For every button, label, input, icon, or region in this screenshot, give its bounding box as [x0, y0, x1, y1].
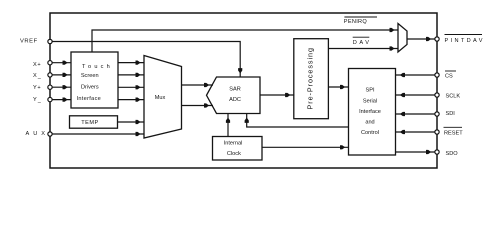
svg-text:Touch: Touch [82, 64, 113, 70]
svg-text:VREF: VREF [20, 39, 38, 45]
svg-text:Y–: Y– [33, 97, 42, 106]
svg-text:Interface: Interface [359, 109, 381, 115]
svg-text:X–: X– [33, 73, 42, 82]
svg-text:Screen: Screen [81, 73, 99, 79]
svg-text:PENIRQ: PENIRQ [344, 19, 368, 25]
svg-text:X+: X+ [33, 62, 41, 68]
svg-text:SPI: SPI [365, 88, 374, 94]
svg-text:TEMP: TEMP [81, 120, 99, 126]
svg-text:Y+: Y+ [33, 85, 41, 91]
svg-text:SDO: SDO [446, 151, 459, 157]
svg-text:SCLK: SCLK [446, 93, 461, 99]
svg-text:RESET: RESET [444, 130, 463, 136]
svg-text:Mux: Mux [155, 95, 166, 101]
svg-text:PINTDAV: PINTDAV [445, 38, 485, 44]
svg-text:SDI: SDI [446, 111, 456, 117]
svg-text:SAR: SAR [229, 87, 241, 93]
svg-text:Clock: Clock [227, 151, 241, 157]
svg-text:Internal: Internal [224, 141, 243, 147]
svg-text:CS: CS [445, 74, 453, 80]
svg-text:and: and [365, 120, 374, 126]
svg-text:ADC: ADC [229, 97, 241, 103]
svg-text:Control: Control [361, 130, 379, 136]
svg-text:AUX: AUX [26, 131, 50, 137]
svg-text:Serial: Serial [363, 98, 377, 104]
svg-text:Interface: Interface [76, 96, 101, 102]
svg-text:DAV: DAV [353, 40, 372, 46]
svg-text:Drivers: Drivers [81, 85, 99, 91]
svg-text:Pre-Processing: Pre-Processing [305, 47, 314, 109]
